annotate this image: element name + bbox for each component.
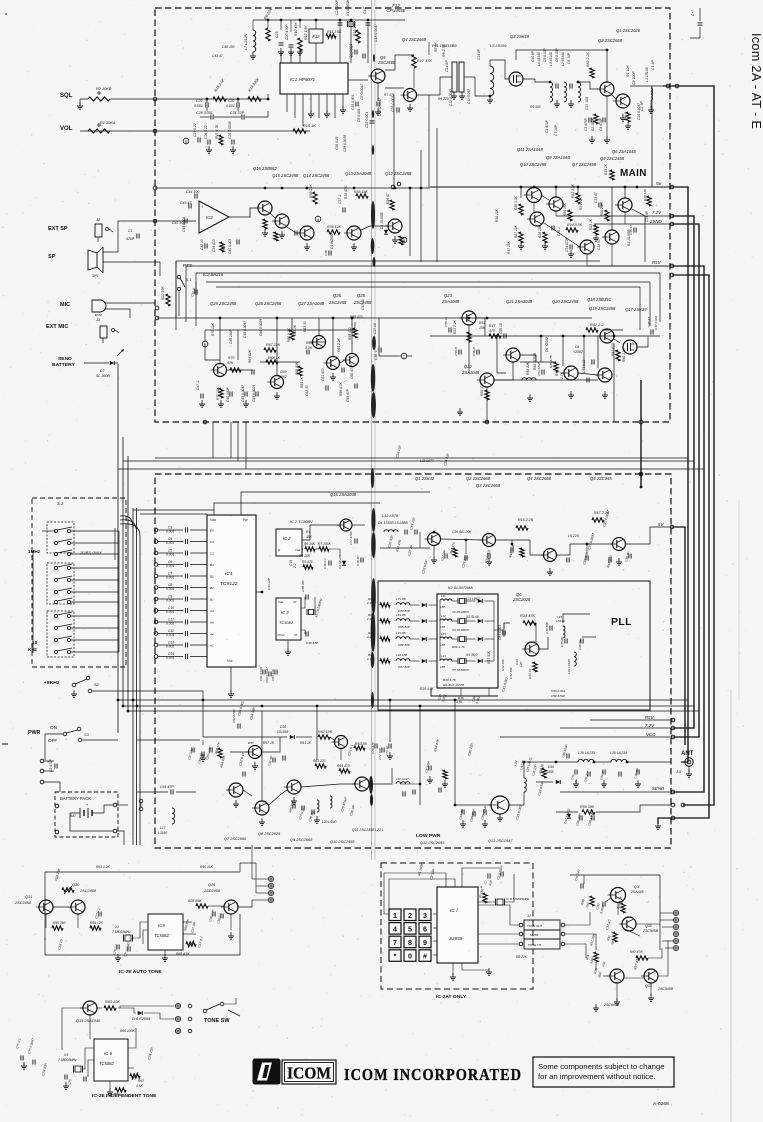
wire l5 q3 <box>490 60 509 79</box>
wire send cluster rails <box>205 329 355 331</box>
transistor Q13 <box>347 226 361 240</box>
svg-text:ICOM: ICOM <box>287 1064 331 1083</box>
svg-text:L22 LA/2/: L22 LA/2/ <box>396 777 409 781</box>
svg-text:D18: D18 <box>280 725 286 729</box>
wire ic3 down <box>287 640 289 648</box>
svg-text:C18 3P: C18 3P <box>356 555 360 566</box>
svg-text:0.001: 0.001 <box>166 622 174 626</box>
svg-text:C26 0.22: C26 0.22 <box>204 125 208 139</box>
wire at q31 q30 <box>53 906 71 908</box>
svg-text:2SC2458: 2SC2458 <box>79 889 97 893</box>
resistor R3 470 <box>303 565 313 569</box>
svg-text:Q16 2SA1048: Q16 2SA1048 <box>330 492 357 497</box>
wire bank bottom <box>460 688 462 696</box>
ground ic1 pll <box>230 690 232 694</box>
svg-text:TC9122: TC9122 <box>220 581 238 587</box>
wire antenna feed bus <box>663 86 714 805</box>
ground at antenna <box>657 822 659 826</box>
svg-text:E5: E5 <box>210 529 214 533</box>
svg-text:C43 47: C43 47 <box>180 201 192 205</box>
caps it left <box>20 1056 22 1061</box>
resistor R17 pll <box>592 518 604 522</box>
capacitor C3 <box>184 528 186 533</box>
transistor Q31 at <box>39 900 53 914</box>
ground helical <box>556 100 558 104</box>
wire 5V rail main <box>430 186 672 188</box>
wire ant filter <box>556 761 578 763</box>
wire switch row 1 <box>71 530 119 532</box>
wire q17 out <box>637 336 648 347</box>
svg-text:C67 470P: C67 470P <box>232 708 236 723</box>
svg-text:Q1 2SC2026: Q1 2SC2026 <box>616 28 641 33</box>
wire r5v run <box>587 265 672 267</box>
svg-text:C63 100: C63 100 <box>271 669 275 681</box>
wire gnd stub <box>658 818 673 824</box>
switch bank dotted box 1 <box>47 522 74 553</box>
svg-text:Q3 2SC2668: Q3 2SC2668 <box>476 483 501 488</box>
svg-text:Q19 2SC2458: Q19 2SC2458 <box>589 306 616 311</box>
capacitor C2 kp <box>500 872 502 877</box>
svg-text:Q30: Q30 <box>645 924 652 928</box>
rotary switch row 9 <box>54 626 57 629</box>
svg-text:R10 47K: R10 47K <box>294 22 298 36</box>
jack X line <box>139 799 143 803</box>
capacitor q10 c <box>412 790 414 795</box>
svg-text:0.001: 0.001 <box>166 530 174 534</box>
svg-text:R68 1K: R68 1K <box>268 356 281 360</box>
capacitor C60b <box>354 384 356 389</box>
wire j1 right <box>565 912 590 925</box>
svg-text:Q29 2SC2458: Q29 2SC2458 <box>210 301 237 306</box>
svg-text:L31 L877: L31 L877 <box>420 459 434 463</box>
svg-text:R70: R70 <box>228 356 234 360</box>
svg-text:R32 22K: R32 22K <box>501 658 505 671</box>
svg-text:C8 0.35P: C8 0.35P <box>555 47 559 62</box>
svg-text:C40 0.001: C40 0.001 <box>228 239 232 254</box>
svg-text:2SC945B: 2SC945B <box>657 987 674 991</box>
transistor Qd18 <box>335 736 348 749</box>
svg-text:5: 5 <box>408 925 412 933</box>
wire q16 pll <box>302 525 340 540</box>
bank crystal X4 <box>460 637 465 642</box>
ring terminal br1 <box>673 910 678 915</box>
transistor Q17 fet <box>623 340 637 354</box>
pll row coil L7 <box>396 603 410 605</box>
node T <box>401 353 407 359</box>
fold line <box>371 0 373 860</box>
svg-text:C70 47P: C70 47P <box>371 741 375 754</box>
svg-text:R34 47K: R34 47K <box>520 614 535 618</box>
resistor lower pll r1 <box>443 770 447 779</box>
resistor R71 <box>219 388 223 398</box>
wire bank collect <box>118 531 120 652</box>
connector J1 kp <box>524 920 560 930</box>
svg-text:C9 0.33P: C9 0.33P <box>543 47 547 62</box>
transistor Q26 at <box>224 900 238 914</box>
terminal pll cap col 8 <box>154 609 158 613</box>
svg-text:3.3K: 3.3K <box>305 346 313 350</box>
resistor R10 br <box>636 956 648 960</box>
resistor R55 <box>218 748 222 758</box>
svg-text:C55 10: C55 10 <box>499 323 503 334</box>
svg-text:R61 1K: R61 1K <box>300 741 312 745</box>
wire drop q20 <box>540 336 542 362</box>
capacitor C21 <box>338 22 343 24</box>
svg-text:C16 0.0047: C16 0.0047 <box>378 97 382 116</box>
wire pll cap row 1 <box>158 529 183 531</box>
svg-text:EXT SP: EXT SP <box>48 226 68 232</box>
capacitor C14 <box>184 654 186 659</box>
svg-text:S2559: S2559 <box>449 936 463 941</box>
svg-text:C47 0.001: C47 0.001 <box>654 316 658 330</box>
svg-text:R13 47K: R13 47K <box>353 22 357 36</box>
wire q4 r17 <box>428 42 430 55</box>
svg-text:C48 100: C48 100 <box>222 45 235 49</box>
svg-text:2SC2668: 2SC2668 <box>377 60 396 65</box>
svg-text:L13: L13 <box>441 632 446 636</box>
svg-text:S: S <box>185 140 188 144</box>
svg-text:Q4 2SC2668: Q4 2SC2668 <box>402 37 427 42</box>
svg-text:IC5: IC5 <box>158 923 165 928</box>
wire r17 rail <box>428 95 430 188</box>
bank diode D9 <box>478 599 483 603</box>
battery cell symbol <box>79 808 81 818</box>
svg-text:C55 /0: C55 /0 <box>454 347 458 356</box>
transistor Q33 br <box>644 969 658 983</box>
resistor R82 <box>590 68 594 78</box>
svg-text:SEND: SEND <box>652 786 665 791</box>
wire switch bank left <box>32 551 34 653</box>
keypad key 1 <box>389 909 401 921</box>
resistor R19 <box>610 170 614 180</box>
vco caps <box>404 530 406 535</box>
resistor R33 <box>533 662 537 672</box>
svg-text:Q12 2SC2053: Q12 2SC2053 <box>420 841 445 845</box>
svg-text:C60 0.0047: C60 0.0047 <box>265 667 269 683</box>
ground send cluster <box>201 400 203 404</box>
capacitor C44 <box>194 194 196 199</box>
wire q13 q12 <box>361 226 388 230</box>
capacitor C13 <box>184 643 186 648</box>
pll row diode D5 <box>422 619 427 623</box>
wire drop q17 <box>613 343 615 422</box>
wire send right <box>379 346 398 356</box>
wire rail mid top <box>516 50 607 82</box>
terminal VCC pll <box>671 735 675 739</box>
svg-text:R57: R57 <box>248 741 254 745</box>
transistor Qtx <box>249 746 262 759</box>
svg-text:X2 36.4MHz: X2 36.4MHz <box>451 610 469 614</box>
svg-text:C32 36P: C32 36P <box>509 666 513 679</box>
capacitor extra2 <box>458 350 460 355</box>
svg-text:C28 0.001: C28 0.001 <box>196 111 213 115</box>
transistor Q24b <box>271 376 284 389</box>
svg-text:D?: D? <box>100 369 105 373</box>
vco coil <box>384 530 398 532</box>
svg-text:R59 390: R59 390 <box>580 805 594 809</box>
resistor R11 <box>326 34 336 38</box>
capacitor C48 <box>650 330 652 335</box>
switch bank dashed box <box>32 498 126 667</box>
transistor Q7 pll <box>229 783 243 797</box>
switch TONE SW <box>203 1009 207 1013</box>
ground ant filter <box>575 780 577 784</box>
svg-text:R59 4.7K: R59 4.7K <box>339 381 343 396</box>
resistor R24 <box>566 228 578 232</box>
resistor q15 emitter <box>274 232 278 241</box>
svg-text:L10 L88: L10 L88 <box>396 653 407 657</box>
svg-text:R35 10K: R35 10K <box>327 225 342 229</box>
resistor R16 pll <box>516 526 528 530</box>
wire bank vertical right <box>493 601 495 661</box>
resistor vco r2 <box>520 548 524 557</box>
svg-text:RV1 4.7K: RV1 4.7K <box>215 124 219 139</box>
svg-text:2SA/0/5: 2SA/0/5 <box>630 890 644 894</box>
svg-text:C44 0.0029: C44 0.0029 <box>259 319 263 336</box>
svg-text:IC2: IC2 <box>206 215 213 220</box>
svg-text:C25 0.001: C25 0.001 <box>391 96 395 112</box>
wire pll out right <box>563 614 590 623</box>
transistor Qv4 <box>613 538 626 551</box>
rotary switch row 11 <box>54 650 57 653</box>
capacitor extra3 <box>476 350 478 355</box>
resistor R32 br <box>613 932 617 942</box>
terminal pll cap col 9 <box>154 620 158 624</box>
bank diode D10 <box>478 619 483 623</box>
capacitor mid tx <box>272 758 274 763</box>
svg-text:2SA1048: 2SA1048 <box>441 299 460 304</box>
terminal pll cap col 4 <box>154 563 158 567</box>
svg-text:R45 2.7K: R45 2.7K <box>549 354 553 368</box>
rotary switch row 4 <box>54 566 57 569</box>
wire pll cap row 5 <box>158 575 183 577</box>
svg-text:C61 0.001: C61 0.001 <box>259 667 263 681</box>
svg-text:SQL: SQL <box>60 93 73 99</box>
capacitor C15 <box>355 102 357 107</box>
resistor R55 260 <box>52 926 63 930</box>
ground q4 <box>409 104 411 108</box>
wire r59 row <box>556 811 578 813</box>
wire q16 q15 <box>270 213 275 218</box>
svg-text:D6 YZ082: D6 YZ082 <box>545 337 549 352</box>
svg-text:*: * <box>394 953 397 961</box>
wire lower pll drops <box>202 700 204 737</box>
wire mid verticals <box>409 188 411 256</box>
capacitor C37 <box>342 208 344 213</box>
terminal aux pll 3 <box>671 816 675 820</box>
wire s3 run <box>82 739 118 741</box>
wire ic1 to q5 <box>348 79 368 81</box>
capacitor C31 <box>241 115 243 120</box>
transistor Q9 <box>527 188 542 203</box>
svg-text:R65 1K: R65 1K <box>300 376 304 388</box>
wire drop c53 <box>562 336 564 366</box>
diode D send <box>110 361 115 365</box>
diode D16 <box>556 780 561 784</box>
ground mid <box>281 231 283 235</box>
ground pa <box>235 800 237 804</box>
ground kp <box>452 973 454 977</box>
ground ic3 <box>287 648 289 652</box>
svg-text:Q23: Q23 <box>444 293 453 298</box>
svg-text:L7 L88: L7 L88 <box>396 597 406 601</box>
wire autotone frame <box>44 872 46 940</box>
svg-text:C32 0.001: C32 0.001 <box>365 112 369 128</box>
svg-text:C31 33P: C31 33P <box>230 111 245 115</box>
svg-text:A4: A4 <box>209 609 214 613</box>
svg-text:C9 100P: C9 100P <box>632 71 636 85</box>
svg-text:R24 3.3K: R24 3.3K <box>567 223 583 227</box>
svg-text:0.001: 0.001 <box>194 104 203 108</box>
svg-text:L11: L11 <box>441 594 446 598</box>
svg-text:R15 1K: R15 1K <box>303 124 316 128</box>
transistor Q26b <box>327 357 340 370</box>
BATTERY PACK dashed box <box>55 792 118 837</box>
transistor Q22 <box>480 373 494 387</box>
svg-text:/S555: /S555 <box>544 770 554 774</box>
bank crystal X2 <box>460 599 465 604</box>
fold smudge <box>371 201 375 229</box>
wire pll row 2 <box>410 620 420 622</box>
svg-text:Q33 2SA1048: Q33 2SA1048 <box>76 1019 101 1023</box>
capacitor C3 R2 C4 column <box>588 118 590 123</box>
wire keypad top caps <box>462 868 500 887</box>
coil L24 <box>524 778 526 792</box>
switch S3 <box>63 732 67 736</box>
wire pa chain <box>243 790 252 796</box>
svg-text:R39: R39 <box>222 244 226 250</box>
resistor R68 <box>266 360 278 364</box>
svg-text:L1 L5140: L1 L5140 <box>645 67 649 82</box>
svg-text:EVM: EVM <box>95 313 102 317</box>
switch bank dotted box 3 <box>47 611 74 657</box>
svg-text:C59 47P: C59 47P <box>346 388 350 402</box>
svg-text:C2: C2 <box>210 540 214 544</box>
svg-text:Q13 2SA1048: Q13 2SA1048 <box>345 171 372 176</box>
svg-text:C47 .1: C47 .1 <box>196 380 200 390</box>
capacitor q14 base <box>294 231 296 236</box>
ground mid tx <box>254 762 256 766</box>
terminal R5V <box>670 264 674 268</box>
resistor q16 emitter <box>263 219 267 229</box>
svg-text:Q16 2SB562: Q16 2SB562 <box>253 166 277 171</box>
resistor R63 23K <box>104 1006 116 1010</box>
terminal opamp input <box>153 219 157 223</box>
wire q22 drop <box>486 387 488 422</box>
svg-text:L11 L882: L11 L882 <box>466 597 480 601</box>
svg-text:C59 47UP: C59 47UP <box>551 694 566 698</box>
svg-text:R7 100K: R7 100K <box>318 542 332 546</box>
coil L29 <box>578 759 594 762</box>
svg-text:8: 8 <box>408 939 412 947</box>
svg-text:MAIN: MAIN <box>620 168 647 179</box>
junction dots vco <box>433 531 436 534</box>
wire d18 row <box>203 736 287 738</box>
svg-text:L9 L88: L9 L88 <box>396 631 406 635</box>
capacitor C26 <box>207 140 209 145</box>
svg-text:R6 220: R6 220 <box>438 97 449 101</box>
pll row resistor R26 <box>380 659 390 663</box>
capacitor C81 <box>502 631 504 636</box>
svg-text:L17: L17 <box>160 826 166 830</box>
svg-text:L32 L879: L32 L879 <box>382 514 399 518</box>
terminal mid border 2 <box>155 316 159 320</box>
wire ic1 top pins pll <box>214 503 380 515</box>
terminal pll cap col 5 <box>154 574 158 578</box>
wire br to rings <box>648 948 662 958</box>
transistor Q10 <box>549 197 563 211</box>
wire br lower <box>595 962 597 970</box>
terminal ant coupling b <box>675 84 679 88</box>
caps mid tx <box>191 748 193 753</box>
rotary switch row 3 <box>54 552 57 555</box>
capacitor C10 <box>184 608 186 613</box>
bank coil L11 <box>440 599 452 601</box>
wire q cluster rail330 <box>205 329 238 331</box>
svg-text:R67 22K: R67 22K <box>266 343 281 347</box>
rotary switch row 5 <box>54 578 57 581</box>
svg-text:XTout: XTout <box>276 633 285 637</box>
svg-text:IC-2AT ONLY: IC-2AT ONLY <box>436 994 467 1000</box>
wire opamp input rail <box>155 220 196 222</box>
svg-text:R22 3.3K: R22 3.3K <box>571 183 575 198</box>
svg-text:Q7 2SC2458: Q7 2SC2458 <box>572 162 597 167</box>
wire kp xtal <box>478 902 484 905</box>
svg-text:#: # <box>423 953 427 961</box>
ic1 bottom pins <box>286 94 288 112</box>
svg-text:C5 470P: C5 470P <box>545 119 549 133</box>
svg-text:0.001: 0.001 <box>166 610 174 614</box>
IC3 box <box>276 598 301 640</box>
svg-text:C16 0.1: C16 0.1 <box>323 558 327 569</box>
capacitor C38 b <box>378 348 380 353</box>
terminal SEND pll <box>671 790 675 794</box>
resistor R6 15K <box>305 547 315 551</box>
svg-text:BATTERY: BATTERY <box>52 362 75 368</box>
svg-text:R57 1K: R57 1K <box>263 741 275 745</box>
wire drop q24 cluster <box>219 318 221 363</box>
IC1 TC9122 box <box>207 515 256 667</box>
capacitor C23 <box>279 42 284 44</box>
resistor R28 100K <box>196 904 208 908</box>
svg-text:7: 7 <box>393 939 397 947</box>
svg-text:C4 470P: C4 470P <box>599 117 603 131</box>
svg-text:Q2 2SC2668: Q2 2SC2668 <box>598 38 623 43</box>
resistor R30 330 <box>485 390 489 400</box>
svg-text:R30 4.7K: R30 4.7K <box>443 678 457 682</box>
wire switch row 4 <box>71 567 119 569</box>
svg-text:D3 12V20: D3 12V20 <box>338 555 342 569</box>
terminal q12 top <box>391 185 395 189</box>
svg-text:R58 470: R58 470 <box>348 327 352 340</box>
wire at4 <box>252 899 268 901</box>
svg-text:R61: R61 <box>306 341 312 345</box>
svg-text:L88: L88 <box>440 643 445 647</box>
wire pll cap row 3 <box>158 552 183 554</box>
svg-text:TONE TH: TONE TH <box>528 943 541 947</box>
wire 7.2V rail lower <box>560 727 673 729</box>
switch S1 ptt <box>177 275 180 278</box>
jack J2 <box>95 224 102 237</box>
rotary switch row 10 <box>54 638 57 641</box>
ring terminal br3 <box>673 924 678 929</box>
svg-text:C43 12P: C43 12P <box>267 577 271 590</box>
capacitor C34b <box>569 245 571 250</box>
svg-text:Q27 2SA1048: Q27 2SA1048 <box>298 301 325 306</box>
svg-text:R20 2.2K: R20 2.2K <box>600 201 604 216</box>
svg-text:C3 470P: C3 470P <box>584 117 588 131</box>
svg-text:L14: L14 <box>441 654 446 658</box>
